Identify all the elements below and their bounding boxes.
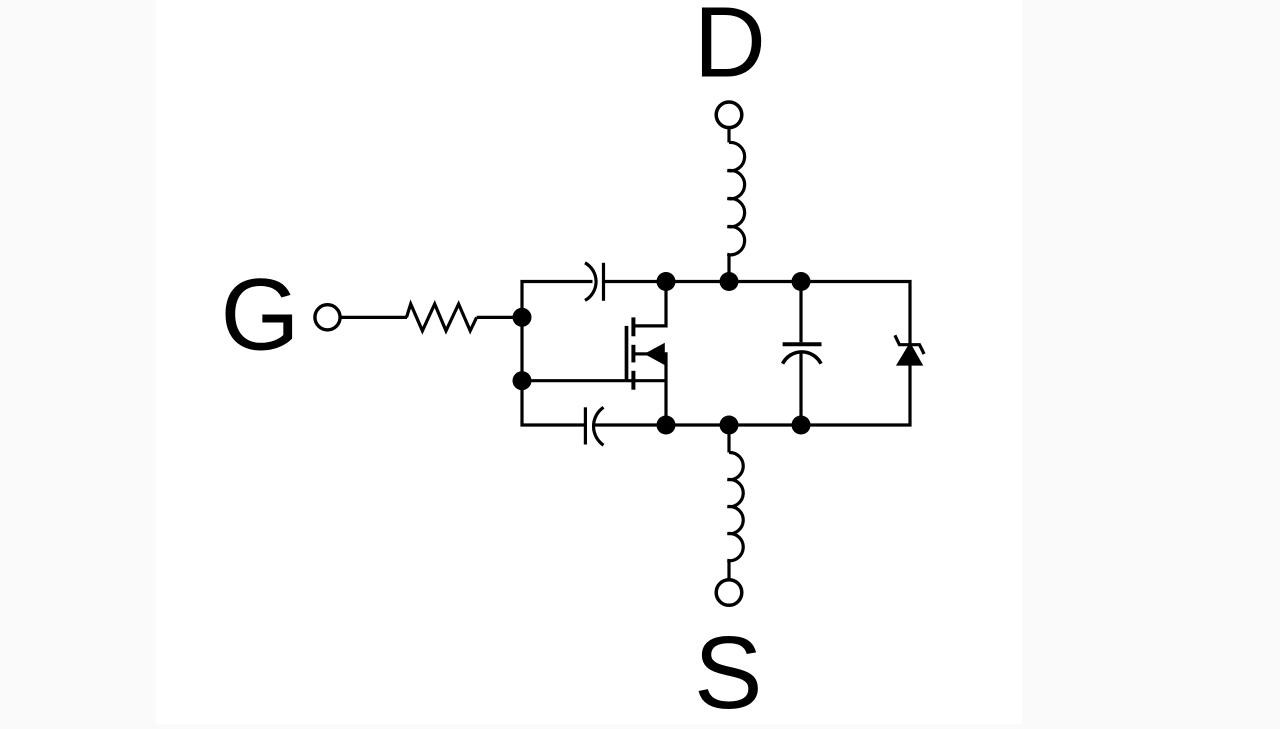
transistor Q1 body arrow bbox=[648, 345, 664, 362]
wire LS coil to terminal bbox=[727, 561, 730, 580]
transistor Q1 drain lead bbox=[633, 282, 666, 326]
wire bottom line source node to right corner bbox=[666, 364, 910, 425]
node D terminal circle bbox=[716, 102, 742, 128]
transistor Q1 body lead bbox=[633, 352, 649, 355]
diode D1 zener bar bbox=[895, 335, 924, 354]
node junction source-Cds bbox=[792, 416, 811, 435]
capacitor Cgs curved plate bbox=[594, 407, 604, 445]
capacitor Cgd straight plate bbox=[602, 263, 605, 301]
transistor Q1 channel segment top bbox=[631, 317, 635, 336]
wire resistor to gate node bbox=[477, 316, 522, 319]
node junction drain-Cds bbox=[792, 272, 811, 291]
node junction drain-inductor bbox=[720, 272, 739, 291]
wire LD coil to drain bus bbox=[727, 255, 730, 282]
node junction gate-resistor bbox=[513, 308, 532, 327]
capacitor Cds curved plate bbox=[783, 352, 821, 364]
svg-text:S: S bbox=[694, 615, 763, 729]
wire G terminal to resistor bbox=[341, 316, 407, 319]
capacitor Cds straight plate bbox=[783, 342, 822, 346]
node G terminal circle bbox=[315, 305, 340, 330]
node junction drain-left bbox=[657, 272, 676, 291]
node junction source-inductor bbox=[720, 416, 739, 435]
inductor LD coil bbox=[727, 142, 744, 254]
node junction gate-lower bbox=[513, 371, 532, 390]
inductor LS coil bbox=[727, 452, 743, 560]
node junction source-left bbox=[657, 416, 676, 435]
capacitor Cds top wire bbox=[799, 282, 802, 343]
diode D1 anode triangle bbox=[899, 346, 921, 365]
wire left vertical bus with corners bbox=[522, 282, 593, 426]
node S terminal circle bbox=[716, 580, 742, 606]
wire Cgs to source node bbox=[594, 423, 666, 426]
inductor LS wire from source bus bbox=[727, 425, 730, 453]
capacitor Cgs straight plate bbox=[584, 407, 587, 444]
transistor Q1 gate bar bbox=[625, 326, 629, 381]
svg-text:G: G bbox=[220, 257, 299, 371]
transistor Q1 source vertical bbox=[663, 354, 666, 425]
wire gate lead horizontal bbox=[522, 379, 666, 382]
inductor LD wire from terminal bbox=[727, 128, 730, 143]
wire top line drain node to right corner bbox=[666, 282, 910, 345]
capacitor Cgd curved plate bbox=[585, 263, 596, 301]
resistor RG zigzag bbox=[407, 304, 477, 331]
transistor Q1 channel segment middle bbox=[631, 345, 635, 363]
transistor Q1 channel segment bottom bbox=[631, 371, 635, 390]
svg-text:D: D bbox=[694, 0, 766, 98]
wire Cgd to drain node bbox=[604, 280, 667, 283]
capacitor Cds bottom wire bbox=[799, 353, 802, 425]
